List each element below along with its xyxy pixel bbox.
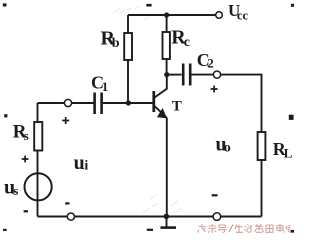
wire C1 to base	[103, 102, 153, 104]
node junction collector	[164, 72, 169, 77]
wire Rs to source and down to bottom rail	[37, 151, 39, 217]
edge mark bottom-right	[291, 230, 294, 233]
edge mark top-left	[3, 3, 7, 6]
node junction emitter-ground	[164, 214, 170, 220]
wire Rc bottom lead	[166, 59, 168, 75]
wire output to right corner	[221, 75, 262, 132]
transistor T emitter stroke	[155, 106, 167, 118]
wire emitter down lead	[166, 118, 168, 217]
minus sign top rail	[146, 4, 151, 7]
resistor RL	[258, 132, 266, 160]
minus sign below source us	[24, 210, 28, 212]
svg-text:T: T	[172, 98, 182, 114]
minus sign above output bottom terminal	[212, 194, 218, 196]
terminal Ucc circle	[216, 12, 223, 19]
resistor Rc	[163, 32, 170, 59]
svg-text:s: s	[24, 128, 29, 143]
wire bottom rail	[38, 216, 262, 218]
minus sign left of ground	[147, 229, 153, 231]
wire C2 to output terminal	[191, 74, 213, 76]
node junction top (Rc to rail)	[164, 12, 169, 17]
edge mark right-middle	[289, 115, 294, 120]
edge mark bottom-left	[3, 229, 7, 231]
edge mark left-middle	[4, 114, 7, 117]
svg-text:o: o	[224, 141, 231, 156]
capacitor C1	[95, 93, 102, 115]
transistor T base bar	[152, 91, 155, 112]
svg-text:b: b	[112, 36, 120, 51]
faint ghost watermark near ground	[143, 195, 182, 213]
terminal bottom-right circle	[213, 213, 221, 221]
plus sign input	[62, 117, 69, 124]
svg-text:cc: cc	[237, 9, 249, 23]
wire input top (left corner to C1)	[38, 102, 94, 104]
transistor T collector stroke	[155, 75, 167, 98]
wire top rail	[128, 14, 216, 16]
source us circle	[24, 173, 51, 200]
terminal input circle	[64, 99, 71, 106]
wire left branch top lead	[37, 103, 39, 122]
svg-text:u: u	[74, 152, 85, 174]
watermark red text bottom-right	[198, 224, 291, 233]
edge mark top-right	[291, 4, 294, 7]
svg-text:i: i	[84, 159, 88, 174]
plus sign output	[211, 86, 218, 93]
wire collector to C2	[169, 74, 181, 76]
terminal bottom-left circle	[67, 213, 74, 220]
plus sign above source us	[22, 156, 29, 163]
svg-text:s: s	[13, 183, 18, 198]
svg-text:2: 2	[207, 56, 214, 71]
ground bar	[161, 226, 177, 229]
resistor Rb	[124, 33, 132, 60]
minus sign above bottom-left terminal	[65, 202, 69, 204]
svg-text:1: 1	[102, 79, 109, 94]
wire Rb top lead	[127, 15, 129, 33]
transistor T emitter arrow	[157, 108, 167, 118]
wire Rb bottom lead	[127, 60, 129, 103]
svg-text:L: L	[284, 146, 293, 161]
svg-text:c: c	[184, 35, 190, 50]
node junction base (Rb to base wire)	[126, 100, 131, 105]
ground stem	[166, 216, 168, 226]
wire Rc top lead	[166, 15, 168, 32]
capacitor C2	[183, 64, 190, 86]
resistor Rs	[34, 122, 42, 151]
wire RL bottom lead	[261, 160, 263, 217]
faint ghost watermark top-left	[113, 6, 149, 20]
terminal output circle	[213, 71, 220, 78]
